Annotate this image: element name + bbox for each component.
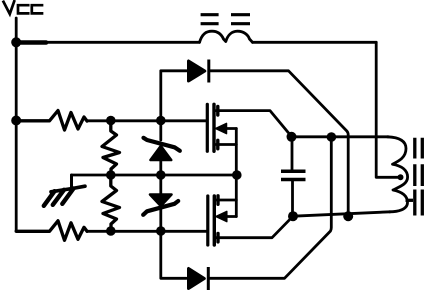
node gate1 rail left xyxy=(11,116,21,126)
node Z1 top xyxy=(156,116,166,126)
inductor L1 core dashes xyxy=(201,15,250,24)
diode D2 (anode at Q2 gate) xyxy=(161,137,331,290)
transformer T1 primary winding xyxy=(388,137,408,212)
node R3 bottom xyxy=(106,226,116,236)
wire common source vertical xyxy=(235,129,238,217)
diode D1 (anode at Q1 gate) xyxy=(161,60,348,217)
Q2 source stub xyxy=(216,196,219,205)
transformer core dashes xyxy=(406,138,423,216)
node primary top / cap xyxy=(287,132,297,142)
resistor R4 (bottom gate pull-up) xyxy=(16,221,87,241)
node source rail right xyxy=(232,170,242,180)
Q2 channel bar xyxy=(213,196,216,245)
resistor R1 (top gate pull-up) xyxy=(16,111,87,131)
node center tap xyxy=(398,174,404,180)
wire gate rail Q2 xyxy=(87,230,207,233)
wire Vcc rail to center-tap corner xyxy=(253,41,377,44)
Q1 gate bar xyxy=(206,104,209,151)
Q2 body arrow xyxy=(216,211,227,221)
wire top rail (primary top) xyxy=(292,135,389,138)
Q1 channel bar xyxy=(212,104,215,151)
node primary top / D2 xyxy=(327,132,337,142)
inductor L1 xyxy=(200,31,253,42)
node Z2 bottom xyxy=(156,226,166,236)
Vcc label xyxy=(4,1,43,14)
wire source rail xyxy=(72,174,237,177)
mosfet Q1 xyxy=(207,104,291,216)
node zener mid xyxy=(156,170,166,180)
wire gate rail Q1 xyxy=(87,119,206,122)
Q1 body arrow xyxy=(216,123,227,133)
node primary bottom / D1 xyxy=(343,211,353,221)
resistor R2 (gate-source top) xyxy=(102,121,120,175)
Q1 source stub xyxy=(216,140,219,149)
capacitor C1 xyxy=(281,137,306,216)
wire bottom rail (primary bottom) xyxy=(293,212,390,216)
zener Z2 xyxy=(143,175,178,231)
Q1 drain stub xyxy=(216,107,219,116)
wire center tap vertical xyxy=(376,42,400,177)
wire Vcc left rail xyxy=(15,18,18,231)
resistor R3 (gate-source bottom) xyxy=(102,175,120,231)
Q2 drain stub xyxy=(216,233,219,242)
zener Z1 xyxy=(144,121,180,176)
mosfet Q2 xyxy=(208,196,293,245)
node primary bottom / cap xyxy=(288,211,298,221)
wire Vcc top rail xyxy=(16,41,199,44)
node R2 top xyxy=(106,116,116,126)
node Vcc top xyxy=(11,37,21,47)
node R2/R3 mid xyxy=(106,170,116,180)
Q2 gate bar xyxy=(206,196,209,245)
ground xyxy=(44,175,85,206)
